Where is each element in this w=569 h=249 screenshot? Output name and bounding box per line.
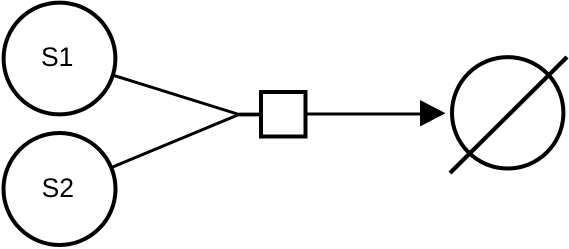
svg-text:S1: S1 <box>41 42 73 72</box>
svg-text:S2: S2 <box>42 173 74 203</box>
